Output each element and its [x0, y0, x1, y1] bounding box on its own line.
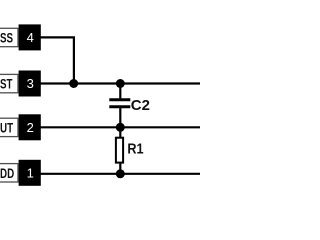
svg-text:3: 3 — [27, 76, 34, 91]
svg-text:R1: R1 — [127, 141, 143, 158]
svg-text:4: 4 — [27, 30, 34, 45]
svg-text:DD: DD — [0, 165, 14, 181]
svg-text:1: 1 — [27, 166, 34, 181]
svg-text:ST: ST — [0, 76, 13, 92]
svg-text:C2: C2 — [131, 97, 150, 114]
svg-text:2: 2 — [27, 120, 34, 135]
svg-text:SS: SS — [0, 30, 13, 46]
svg-text:UT: UT — [0, 120, 14, 136]
